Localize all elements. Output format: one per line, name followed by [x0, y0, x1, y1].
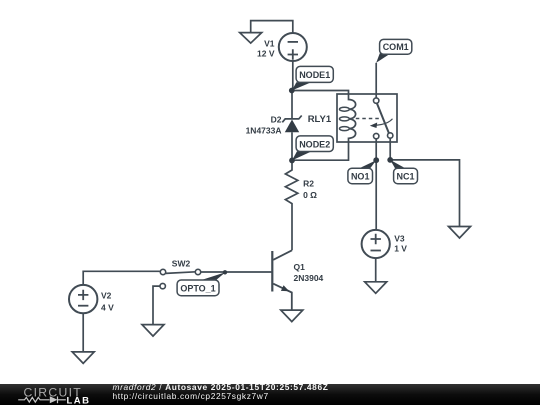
svg-text:LAB: LAB	[67, 395, 91, 405]
svg-text:OPTO_1: OPTO_1	[180, 284, 215, 294]
svg-text:NODE1: NODE1	[299, 70, 330, 80]
svg-text:NODE2: NODE2	[299, 139, 330, 149]
svg-text:COM1: COM1	[383, 42, 409, 52]
svg-text:V3: V3	[394, 233, 405, 243]
svg-text:D2: D2	[271, 114, 282, 124]
svg-text:RLY1: RLY1	[308, 114, 332, 125]
svg-text:SW2: SW2	[172, 258, 191, 268]
svg-text:NO1: NO1	[351, 172, 370, 182]
svg-text:0 Ω: 0 Ω	[303, 190, 317, 200]
svg-text:2N3904: 2N3904	[294, 273, 324, 283]
svg-text:V2: V2	[101, 290, 112, 300]
svg-text:V1: V1	[264, 39, 275, 49]
svg-text:4 V: 4 V	[101, 302, 114, 312]
svg-text:1N4733A: 1N4733A	[246, 125, 282, 135]
svg-text:12 V: 12 V	[257, 49, 275, 59]
svg-text:1 V: 1 V	[394, 243, 407, 253]
svg-text:NC1: NC1	[396, 172, 414, 182]
svg-text:Q1: Q1	[294, 262, 306, 272]
svg-text:R2: R2	[303, 179, 314, 189]
